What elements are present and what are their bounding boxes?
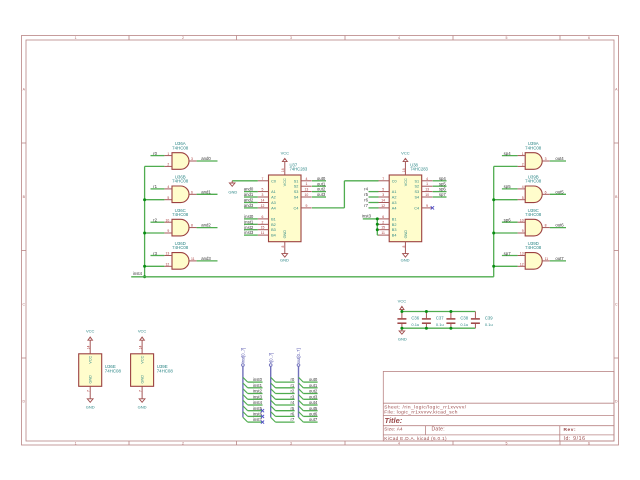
svg-text:out1: out1 xyxy=(317,181,326,186)
svg-text:0.1u: 0.1u xyxy=(485,322,493,327)
svg-text:Size: A4: Size: A4 xyxy=(384,427,403,432)
svg-text:out4: out4 xyxy=(555,156,564,161)
svg-text:3: 3 xyxy=(191,157,193,161)
svg-text:74HC08: 74HC08 xyxy=(525,179,542,184)
svg-text:8: 8 xyxy=(402,246,406,248)
svg-text:VCC: VCC xyxy=(283,178,287,186)
svg-text:VCC: VCC xyxy=(141,355,145,363)
svg-text:C4: C4 xyxy=(294,206,299,210)
svg-text:out7: out7 xyxy=(555,256,564,261)
svg-text:2: 2 xyxy=(262,220,264,224)
svg-text:r[0..7]: r[0..7] xyxy=(268,353,273,363)
svg-text:out0: out0 xyxy=(317,176,326,181)
svg-text:GND: GND xyxy=(141,375,145,384)
svg-text:9: 9 xyxy=(426,204,428,208)
svg-text:C36: C36 xyxy=(411,315,419,320)
svg-text:C0: C0 xyxy=(271,179,276,183)
svg-text:r7: r7 xyxy=(290,417,294,422)
svg-text:A2: A2 xyxy=(392,196,397,200)
svg-text:C37: C37 xyxy=(436,315,444,320)
svg-text:B4: B4 xyxy=(271,234,276,238)
svg-text:1: 1 xyxy=(305,182,307,186)
svg-text:r5: r5 xyxy=(290,406,294,411)
svg-text:VCC: VCC xyxy=(138,329,147,334)
svg-text:8: 8 xyxy=(191,224,193,228)
svg-text:4: 4 xyxy=(522,185,524,189)
svg-text:7: 7 xyxy=(262,177,264,181)
svg-text:74HC08: 74HC08 xyxy=(525,245,542,250)
svg-text:74HC08: 74HC08 xyxy=(172,179,189,184)
svg-text:and0: and0 xyxy=(201,156,211,161)
svg-text:out6: out6 xyxy=(309,412,318,417)
svg-text:S4: S4 xyxy=(294,196,299,200)
svg-text:A4: A4 xyxy=(392,206,397,210)
svg-text:13: 13 xyxy=(520,252,524,256)
svg-text:out7: out7 xyxy=(309,417,318,422)
svg-text:74HC08: 74HC08 xyxy=(172,145,189,150)
svg-text:C0: C0 xyxy=(392,179,397,183)
svg-text:r6: r6 xyxy=(364,198,368,203)
svg-text:8: 8 xyxy=(545,224,547,228)
svg-text:1: 1 xyxy=(426,182,428,186)
svg-text:0.1u: 0.1u xyxy=(436,322,444,327)
svg-text:14: 14 xyxy=(139,346,143,350)
svg-text:Sheet: /rin_logic/logic_rr1xvv: Sheet: /rin_logic/logic_rr1xvvvv/ xyxy=(384,404,467,410)
svg-text:4: 4 xyxy=(305,177,307,181)
svg-text:sp5: sp5 xyxy=(504,184,512,189)
svg-text:VCC: VCC xyxy=(398,299,407,304)
svg-text:16: 16 xyxy=(281,168,285,172)
svg-text:VCC: VCC xyxy=(281,151,290,156)
svg-text:S1: S1 xyxy=(294,179,299,183)
svg-text:14: 14 xyxy=(261,199,265,203)
svg-text:S4: S4 xyxy=(414,196,419,200)
svg-text:r1: r1 xyxy=(153,184,157,189)
svg-text:VCC: VCC xyxy=(404,178,408,186)
svg-text:out2: out2 xyxy=(309,389,318,394)
svg-text:inst5: inst5 xyxy=(253,406,263,411)
svg-text:GND: GND xyxy=(283,230,287,239)
svg-text:r3: r3 xyxy=(290,394,294,399)
svg-text:sp7: sp7 xyxy=(504,251,512,256)
svg-text:5: 5 xyxy=(506,36,508,40)
svg-text:sp6: sp6 xyxy=(504,218,512,223)
svg-text:and0: and0 xyxy=(244,187,254,192)
svg-text:r3: r3 xyxy=(153,251,157,256)
svg-text:4: 4 xyxy=(426,177,428,181)
svg-text:15: 15 xyxy=(261,226,265,230)
svg-text:6: 6 xyxy=(588,36,590,40)
svg-text:A3: A3 xyxy=(392,201,397,205)
svg-text:inst[0..7]: inst[0..7] xyxy=(241,348,246,363)
svg-text:5: 5 xyxy=(382,188,384,192)
svg-text:inst2: inst2 xyxy=(244,225,254,230)
svg-text:sp5: sp5 xyxy=(439,181,447,186)
svg-text:10: 10 xyxy=(305,193,309,197)
svg-text:9: 9 xyxy=(522,229,524,233)
svg-text:A3: A3 xyxy=(271,201,276,205)
svg-text:1: 1 xyxy=(522,152,524,156)
svg-text:and1: and1 xyxy=(201,189,211,194)
svg-text:10: 10 xyxy=(166,218,170,222)
svg-text:6: 6 xyxy=(382,215,384,219)
svg-text:C4: C4 xyxy=(414,206,419,210)
svg-text:7: 7 xyxy=(139,390,143,392)
svg-text:r4: r4 xyxy=(364,187,368,192)
svg-text:2: 2 xyxy=(382,220,384,224)
svg-text:10: 10 xyxy=(520,218,524,222)
svg-text:12: 12 xyxy=(520,263,524,267)
svg-text:B1: B1 xyxy=(392,217,397,221)
svg-text:File: logic_rr1xvvvv.kicad_sch: File: logic_rr1xvvvv.kicad_sch xyxy=(384,410,458,416)
svg-text:GND: GND xyxy=(228,190,237,195)
svg-text:3: 3 xyxy=(262,193,264,197)
svg-text:1: 1 xyxy=(75,36,77,40)
svg-text:inst1: inst1 xyxy=(253,383,263,388)
svg-text:and2: and2 xyxy=(244,198,254,203)
svg-text:S2: S2 xyxy=(294,185,299,189)
svg-text:14: 14 xyxy=(87,346,91,350)
svg-text:B3: B3 xyxy=(271,228,276,232)
svg-text:12: 12 xyxy=(166,263,170,267)
svg-text:A1: A1 xyxy=(271,190,276,194)
svg-text:out6: out6 xyxy=(555,223,564,228)
svg-text:B3: B3 xyxy=(392,228,397,232)
svg-text:sp4: sp4 xyxy=(504,151,512,156)
svg-text:11: 11 xyxy=(261,231,265,235)
svg-text:12: 12 xyxy=(381,204,385,208)
svg-text:10: 10 xyxy=(425,193,429,197)
svg-text:sp4: sp4 xyxy=(439,176,447,181)
svg-text:GND: GND xyxy=(401,258,410,263)
svg-text:2: 2 xyxy=(182,442,184,446)
svg-text:1: 1 xyxy=(75,442,77,446)
svg-text:9: 9 xyxy=(167,229,169,233)
svg-text:15: 15 xyxy=(381,226,385,230)
svg-text:14: 14 xyxy=(381,199,385,203)
svg-text:inst0: inst0 xyxy=(253,377,263,382)
svg-text:74HC08: 74HC08 xyxy=(172,245,189,250)
svg-text:9: 9 xyxy=(305,204,307,208)
svg-text:inst3: inst3 xyxy=(253,394,263,399)
svg-text:4: 4 xyxy=(398,36,400,40)
svg-text:0.1u: 0.1u xyxy=(411,322,419,327)
svg-text:r0: r0 xyxy=(153,151,157,156)
svg-text:inst0: inst0 xyxy=(244,214,254,219)
svg-text:out2: out2 xyxy=(317,187,326,192)
svg-text:2: 2 xyxy=(522,163,524,167)
svg-text:sp6: sp6 xyxy=(439,187,447,192)
svg-text:12: 12 xyxy=(261,204,265,208)
svg-text:5: 5 xyxy=(262,188,264,192)
svg-text:inst2: inst2 xyxy=(253,389,263,394)
svg-text:out5: out5 xyxy=(555,189,564,194)
svg-text:74HC08: 74HC08 xyxy=(525,145,542,150)
svg-text:KiCad E.D.A. kicad (6.0.1): KiCad E.D.A. kicad (6.0.1) xyxy=(384,436,447,441)
svg-text:4: 4 xyxy=(167,185,169,189)
svg-text:VCC: VCC xyxy=(89,355,93,363)
svg-text:r0: r0 xyxy=(290,377,294,382)
svg-text:S1: S1 xyxy=(414,179,419,183)
svg-text:A2: A2 xyxy=(271,196,276,200)
svg-text:A1: A1 xyxy=(392,190,397,194)
svg-text:inst4: inst4 xyxy=(253,400,263,405)
svg-text:GND: GND xyxy=(86,405,95,410)
svg-text:3: 3 xyxy=(382,193,384,197)
svg-text:2: 2 xyxy=(167,163,169,167)
svg-text:74HC08: 74HC08 xyxy=(157,369,174,374)
svg-text:sp7: sp7 xyxy=(439,192,447,197)
svg-text:A4: A4 xyxy=(271,206,276,210)
svg-text:6: 6 xyxy=(588,442,590,446)
svg-text:S3: S3 xyxy=(294,190,299,194)
svg-text:out1: out1 xyxy=(309,383,318,388)
svg-text:B2: B2 xyxy=(392,223,397,227)
svg-text:6: 6 xyxy=(545,190,547,194)
svg-text:3: 3 xyxy=(290,442,292,446)
svg-text:5: 5 xyxy=(522,196,524,200)
svg-text:r7: r7 xyxy=(364,203,368,208)
svg-text:1: 1 xyxy=(167,152,169,156)
svg-text:GND: GND xyxy=(138,405,147,410)
svg-text:3: 3 xyxy=(290,36,292,40)
svg-text:6: 6 xyxy=(191,190,193,194)
svg-text:and1: and1 xyxy=(244,192,254,197)
svg-text:r6: r6 xyxy=(290,412,294,417)
svg-text:0.1u: 0.1u xyxy=(460,322,468,327)
svg-text:out3: out3 xyxy=(317,192,326,197)
svg-text:74HC283: 74HC283 xyxy=(290,167,308,172)
svg-text:inst1: inst1 xyxy=(244,219,254,224)
svg-text:2: 2 xyxy=(182,36,184,40)
svg-text:VCC: VCC xyxy=(86,329,95,334)
svg-text:Date:: Date: xyxy=(432,427,445,433)
svg-text:74HC08: 74HC08 xyxy=(105,369,122,374)
svg-text:5: 5 xyxy=(506,442,508,446)
svg-text:74HC08: 74HC08 xyxy=(172,212,189,217)
svg-text:B1: B1 xyxy=(271,217,276,221)
svg-text:and2: and2 xyxy=(201,223,211,228)
svg-text:C39: C39 xyxy=(485,315,493,320)
svg-text:out0: out0 xyxy=(309,377,318,382)
svg-text:r2: r2 xyxy=(153,218,157,223)
svg-text:r5: r5 xyxy=(364,192,368,197)
svg-text:inst3: inst3 xyxy=(244,230,254,235)
svg-text:out4: out4 xyxy=(309,400,318,405)
svg-text:8: 8 xyxy=(281,246,285,248)
svg-text:13: 13 xyxy=(305,188,309,192)
svg-text:r1: r1 xyxy=(290,383,294,388)
svg-text:inst4: inst4 xyxy=(133,271,143,276)
svg-text:11: 11 xyxy=(545,257,549,261)
svg-text:7: 7 xyxy=(87,390,91,392)
svg-text:out5: out5 xyxy=(309,406,318,411)
svg-text:11: 11 xyxy=(191,257,195,261)
svg-text:Title:: Title: xyxy=(385,416,403,425)
svg-text:B4: B4 xyxy=(392,234,397,238)
svg-text:7: 7 xyxy=(382,177,384,181)
svg-text:VCC: VCC xyxy=(401,151,410,156)
svg-text:GND: GND xyxy=(89,375,93,384)
svg-text:5: 5 xyxy=(167,196,169,200)
svg-text:B2: B2 xyxy=(271,223,276,227)
svg-text:74HC283: 74HC283 xyxy=(410,167,428,172)
svg-text:13: 13 xyxy=(166,252,170,256)
svg-text:out3: out3 xyxy=(309,394,318,399)
svg-text:r4: r4 xyxy=(290,400,294,405)
svg-text:C38: C38 xyxy=(460,315,468,320)
svg-text:GND: GND xyxy=(398,336,407,341)
svg-text:out[0..7]: out[0..7] xyxy=(296,348,301,363)
svg-text:6: 6 xyxy=(262,215,264,219)
svg-text:16: 16 xyxy=(402,168,406,172)
svg-text:74HC08: 74HC08 xyxy=(525,212,542,217)
svg-text:11: 11 xyxy=(381,231,385,235)
svg-text:Id: 9/16: Id: 9/16 xyxy=(564,436,586,442)
svg-text:Rev:: Rev: xyxy=(564,427,577,433)
svg-text:GND: GND xyxy=(404,230,408,239)
svg-text:GND: GND xyxy=(280,258,289,263)
svg-text:inst3: inst3 xyxy=(362,213,372,218)
svg-text:4: 4 xyxy=(398,442,400,446)
svg-text:and3: and3 xyxy=(201,256,211,261)
svg-text:3: 3 xyxy=(545,157,547,161)
svg-text:and3: and3 xyxy=(244,203,254,208)
svg-text:r2: r2 xyxy=(290,389,294,394)
svg-text:S3: S3 xyxy=(414,190,419,194)
svg-text:S2: S2 xyxy=(414,185,419,189)
svg-text:13: 13 xyxy=(425,188,429,192)
